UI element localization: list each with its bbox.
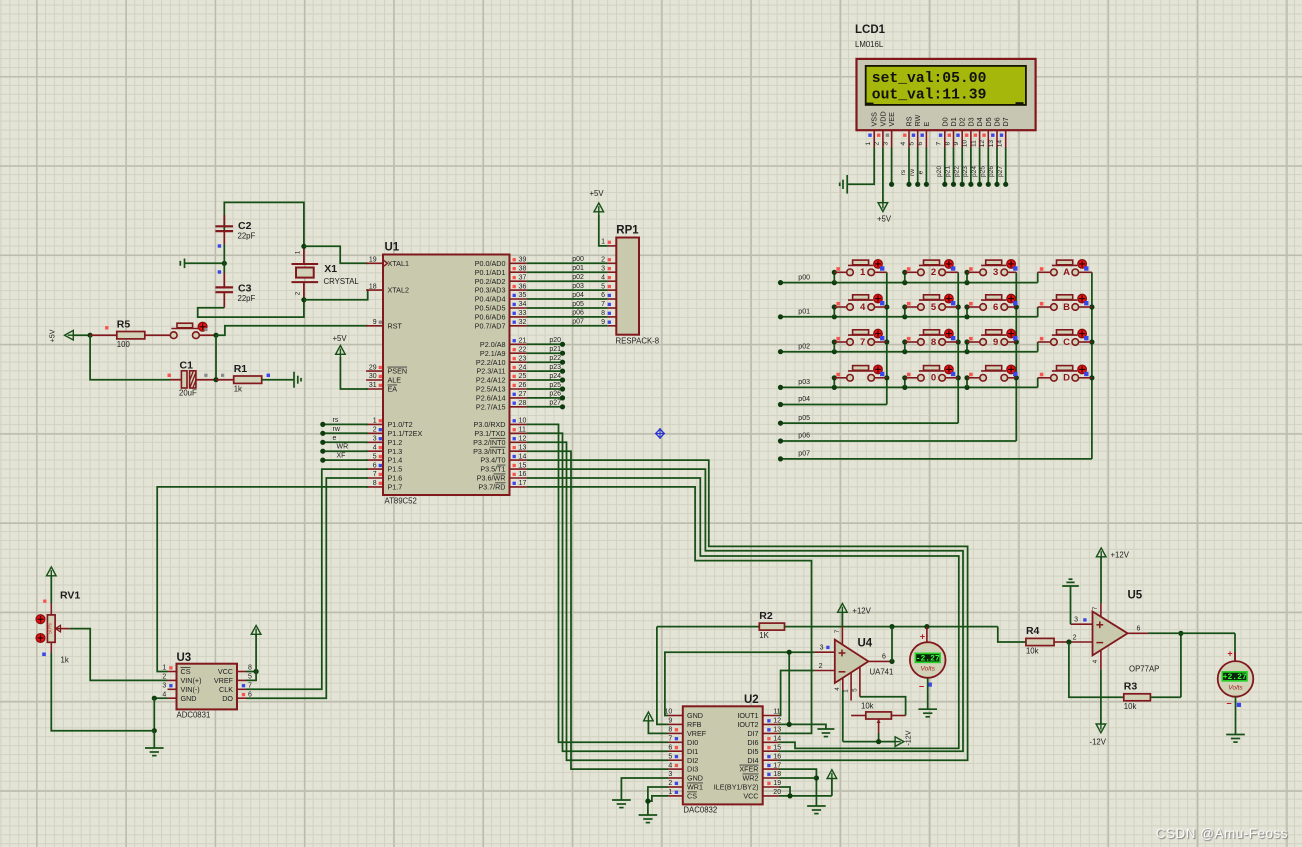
svg-text:15: 15	[519, 462, 527, 469]
power +12V (U4)	[838, 604, 872, 627]
svg-text:RST: RST	[388, 321, 403, 330]
power +5V (left rail)	[48, 329, 91, 342]
svg-text:2: 2	[819, 663, 823, 670]
wire net e (LCD)	[918, 148, 929, 187]
svg-text:6: 6	[373, 462, 377, 469]
svg-text:CS: CS	[181, 667, 191, 676]
svg-text:D: D	[1063, 373, 1070, 384]
svg-text:13: 13	[519, 444, 527, 451]
svg-text:11: 11	[519, 427, 526, 434]
wire RV1 wiper to ADC VIN+	[70, 629, 168, 681]
origin marker	[655, 428, 665, 439]
svg-text:36: 36	[519, 283, 527, 290]
svg-text:D6: D6	[993, 117, 1002, 126]
svg-text:28: 28	[519, 400, 527, 407]
ground (ADC)	[145, 748, 164, 756]
svg-text:p04: p04	[572, 292, 584, 299]
wire net p01 (keypad row)	[778, 304, 1038, 319]
svg-text:D5: D5	[984, 117, 993, 126]
svg-text:21: 21	[519, 338, 527, 345]
svg-text:X1: X1	[324, 263, 337, 275]
svg-text:7: 7	[834, 629, 841, 633]
svg-text:8: 8	[668, 727, 672, 734]
svg-text:38: 38	[519, 265, 527, 272]
svg-text:VCC: VCC	[743, 792, 758, 801]
svg-text:OP77AP: OP77AP	[1129, 665, 1159, 674]
wire C3 bottom to X1 pin2	[198, 300, 304, 317]
svg-text:R2: R2	[759, 610, 773, 622]
push-button keypad 1	[834, 260, 887, 279]
svg-text:32: 32	[519, 319, 527, 326]
svg-text:2: 2	[874, 141, 881, 145]
node C1-R1	[213, 377, 218, 382]
node cap junction	[222, 261, 227, 266]
svg-text:6: 6	[1137, 625, 1141, 632]
wire net p24 (LCD D4)	[971, 148, 982, 187]
ground (IOUT2)	[817, 729, 834, 737]
push-button keypad 2	[905, 260, 958, 279]
voltmeter (U5 output) +2.27V	[1218, 649, 1254, 735]
svg-text:0: 0	[931, 373, 936, 384]
svg-text:out_val:11.39: out_val:11.39	[872, 88, 987, 104]
svg-text:100: 100	[117, 340, 131, 349]
wire net p04 (keypad column)	[778, 272, 890, 407]
svg-text:ALE: ALE	[388, 376, 402, 385]
svg-text:rs: rs	[333, 417, 339, 424]
svg-text:+5V: +5V	[877, 215, 892, 224]
svg-text:rs: rs	[900, 169, 907, 175]
potentiometer RV1 1k	[36, 590, 80, 665]
ground (crystal caps)	[180, 259, 224, 269]
potentiometer 10k (U4 offset)	[851, 697, 906, 733]
node U4 output	[889, 627, 894, 664]
svg-text:XTAL1: XTAL1	[388, 259, 409, 268]
svg-text:P0.3/AD3: P0.3/AD3	[475, 286, 506, 295]
svg-text:VIN(-): VIN(-)	[181, 685, 200, 694]
svg-text:p21: p21	[549, 346, 561, 353]
push-button keypad C	[1038, 329, 1092, 347]
svg-text:P2.0/A8: P2.0/A8	[480, 340, 506, 349]
wire DAC IOUT2 to ground and U4 +input	[779, 650, 826, 729]
svg-text:D3: D3	[966, 117, 975, 126]
wire P3.7 to DAC DI7	[527, 487, 812, 734]
svg-text:9: 9	[993, 337, 998, 348]
svg-text:P2.5/A13: P2.5/A13	[476, 385, 506, 394]
svg-text:10k: 10k	[1124, 702, 1137, 711]
wire net p00 (keypad row)	[778, 270, 1038, 286]
svg-text:DI4: DI4	[747, 756, 758, 765]
svg-text:VCC: VCC	[218, 667, 233, 676]
ground (voltmeter 1)	[918, 709, 937, 717]
svg-text:22pF: 22pF	[238, 232, 256, 241]
DAC U2 DAC0832	[665, 694, 782, 815]
svg-text:14: 14	[519, 453, 527, 460]
capacitor C1 (electrolytic 20uF)	[168, 360, 225, 398]
wire net p20 (LCD D0)	[936, 148, 947, 187]
svg-text:p05: p05	[572, 301, 584, 308]
wire P1.5 to ADC CLK	[246, 469, 368, 689]
microcontroller U1 AT89C52	[366, 242, 526, 506]
svg-text:p04: p04	[798, 396, 810, 403]
svg-text:P3.3/INT1: P3.3/INT1	[473, 447, 505, 456]
svg-text:P1.4: P1.4	[388, 456, 403, 465]
svg-text:13: 13	[988, 140, 995, 148]
svg-text:DI5: DI5	[747, 747, 758, 756]
svg-text:10: 10	[519, 418, 527, 425]
wire X1 pin2 to U1 XTAL2	[304, 290, 368, 300]
svg-text:U2: U2	[744, 694, 759, 706]
svg-text:9: 9	[953, 141, 960, 145]
svg-text:WR: WR	[337, 444, 349, 451]
svg-text:p00: p00	[798, 274, 810, 281]
watermark CSDN	[1156, 826, 1288, 841]
svg-text:VREF: VREF	[214, 676, 234, 685]
wire C2 top to X1 pin1	[224, 202, 304, 246]
svg-text:5: 5	[851, 688, 858, 692]
svg-text:P1.2: P1.2	[388, 438, 403, 447]
svg-text:WR2: WR2	[743, 774, 759, 783]
svg-text:23: 23	[519, 355, 527, 362]
svg-text:4: 4	[1092, 659, 1099, 663]
svg-text:1K: 1K	[759, 631, 769, 640]
wire net p26 (LCD D6)	[988, 148, 999, 187]
node R4-U5	[1066, 639, 1071, 644]
wire net p03 (keypad row)	[778, 375, 1038, 390]
wire RV1 bottom to ground	[51, 653, 154, 731]
push-button keypad D	[1038, 365, 1092, 384]
svg-text:2: 2	[294, 291, 301, 295]
svg-text:1: 1	[860, 267, 866, 278]
svg-text:P2.6/A14: P2.6/A14	[476, 394, 506, 403]
wire net p21 (LCD D1)	[945, 148, 956, 187]
op-amp U5 OP77AP	[1069, 590, 1159, 674]
svg-text:PSEN: PSEN	[388, 367, 408, 376]
svg-text:-12V: -12V	[904, 730, 913, 745]
svg-text:19: 19	[369, 257, 377, 264]
svg-text:P0.6/AD6: P0.6/AD6	[475, 313, 506, 322]
svg-text:p25: p25	[980, 166, 987, 177]
svg-text:+5V: +5V	[48, 329, 57, 342]
svg-text:−: −	[1226, 699, 1231, 709]
svg-text:XF: XF	[337, 453, 346, 460]
svg-text:E: E	[922, 122, 931, 127]
node R5 left	[88, 333, 93, 338]
wire ADC VCC/VREF to +5V	[246, 635, 259, 681]
svg-text:C2: C2	[238, 220, 252, 232]
push-button keypad 8	[905, 329, 958, 347]
svg-text:7: 7	[860, 337, 865, 348]
svg-text:D4: D4	[975, 117, 984, 126]
svg-text:P1.7: P1.7	[388, 483, 403, 492]
svg-text:D7: D7	[1001, 117, 1010, 126]
push-button reset	[170, 322, 216, 338]
svg-text:GND: GND	[687, 774, 703, 783]
svg-text:p03: p03	[572, 283, 584, 290]
svg-text:P3.5/T1: P3.5/T1	[480, 465, 505, 474]
svg-text:D1: D1	[949, 117, 958, 126]
svg-text:VDD: VDD	[878, 111, 887, 126]
svg-text:10k: 10k	[861, 702, 874, 711]
svg-text:C1: C1	[180, 360, 194, 372]
ground (XFER/WR2)	[807, 806, 826, 814]
svg-text:p20: p20	[549, 337, 561, 344]
wire DAC GND(3) to ground	[621, 778, 668, 800]
ground (DAC CS/WR1)	[639, 815, 658, 823]
wire P3.0 to DAC DI0	[527, 424, 668, 742]
wire R3 to U5 output	[1178, 631, 1183, 698]
power +5V (EA)	[333, 334, 369, 389]
svg-text:1: 1	[294, 250, 301, 254]
svg-text:5: 5	[931, 302, 937, 313]
svg-text:+5V: +5V	[333, 334, 348, 343]
svg-text:ADC0831: ADC0831	[177, 711, 211, 720]
svg-text:5: 5	[668, 753, 672, 760]
resistor R2	[657, 610, 892, 640]
svg-text:p24: p24	[971, 166, 978, 177]
svg-text:AT89C52: AT89C52	[385, 497, 417, 506]
svg-text:p20: p20	[936, 166, 943, 177]
svg-text:P1.1/T2EX: P1.1/T2EX	[388, 429, 423, 438]
wire reset junction down to C1/R1 row	[215, 335, 217, 380]
svg-text:p23: p23	[549, 364, 561, 371]
ground (voltmeter 2)	[1226, 735, 1245, 743]
svg-text:P2.1/A9: P2.1/A9	[480, 349, 506, 358]
svg-text:R5: R5	[117, 318, 131, 330]
svg-text:A: A	[1063, 267, 1070, 278]
svg-text:+12V: +12V	[1111, 550, 1130, 559]
node X1 pin1	[301, 244, 306, 249]
svg-text:p01: p01	[798, 309, 810, 316]
resistor R4	[1026, 625, 1069, 655]
svg-text:P0.1/AD1: P0.1/AD1	[475, 268, 506, 277]
svg-text:P2.4/A12: P2.4/A12	[476, 376, 506, 385]
svg-text:DI7: DI7	[747, 729, 758, 738]
svg-text:37: 37	[519, 274, 527, 281]
svg-text:C3: C3	[238, 283, 252, 295]
wire P3.6 to DAC DI6	[527, 478, 959, 748]
svg-text:GND: GND	[687, 711, 703, 720]
svg-text:D2: D2	[958, 117, 967, 126]
svg-text:+12V: +12V	[852, 607, 871, 616]
svg-text:P3.2/INT0: P3.2/INT0	[473, 438, 505, 447]
svg-text:p05: p05	[798, 415, 810, 422]
svg-text:25: 25	[519, 373, 527, 380]
svg-text:4: 4	[373, 444, 377, 451]
svg-text:10: 10	[962, 140, 969, 148]
svg-text:1: 1	[865, 141, 872, 145]
node reset junction	[213, 333, 218, 338]
svg-text:P3.7/RD: P3.7/RD	[478, 483, 505, 492]
push-button keypad A	[1038, 260, 1092, 279]
svg-text:P3.6/WR: P3.6/WR	[477, 474, 506, 483]
wire DAC ILE/VCC to +5V arrow	[779, 779, 832, 799]
svg-text:p01: p01	[572, 265, 584, 272]
svg-text:R3: R3	[1124, 681, 1138, 693]
svg-text:P1.5: P1.5	[388, 465, 403, 474]
svg-text:33: 33	[519, 310, 527, 317]
svg-text:3: 3	[668, 771, 672, 778]
svg-text:+2.27: +2.27	[1223, 673, 1247, 682]
svg-text:GND: GND	[181, 694, 197, 703]
svg-text:31: 31	[369, 382, 377, 389]
wire P3.2 to DAC DI2	[527, 442, 668, 760]
svg-text:RP1: RP1	[616, 225, 639, 237]
wire -12V rail (U4)	[843, 690, 895, 744]
svg-text:2: 2	[373, 427, 377, 434]
crystal X1	[292, 246, 360, 299]
wire net p00-p07 (U1 P0 to RP1)	[527, 256, 608, 326]
wire P1.6 to ADC DO	[246, 478, 368, 698]
svg-text:p26: p26	[988, 166, 995, 177]
resistor pack RP1 RESPACK-8	[601, 225, 659, 346]
wire LCD VSS to ground	[848, 148, 874, 185]
svg-text:22pF: 22pF	[238, 294, 256, 303]
svg-text:20uF: 20uF	[179, 389, 197, 398]
svg-text:p25: p25	[549, 382, 561, 389]
wire X1 pin1 to U1 XTAL1	[304, 246, 368, 263]
ground (LCD VSS)	[840, 175, 848, 194]
wire net p05 (keypad column)	[778, 272, 961, 425]
svg-text:1k: 1k	[61, 656, 69, 665]
svg-text:rw: rw	[333, 426, 341, 433]
svg-text:p07: p07	[798, 451, 810, 458]
wire net p20-p27 (U1 P2 stubs)	[527, 337, 566, 409]
push-button keypad (r4c3)	[967, 365, 1018, 381]
svg-text:39: 39	[519, 257, 527, 264]
push-button keypad 6	[967, 294, 1018, 312]
svg-text:2: 2	[1073, 635, 1077, 642]
svg-text:+: +	[920, 631, 925, 641]
wire net p02 (keypad row)	[778, 339, 1038, 354]
svg-text:1: 1	[668, 789, 672, 796]
svg-text:3: 3	[993, 267, 998, 278]
svg-text:U1: U1	[385, 242, 400, 254]
svg-text:DI3: DI3	[687, 765, 698, 774]
svg-text:DO: DO	[222, 694, 233, 703]
svg-text:IOUT1: IOUT1	[737, 711, 758, 720]
wire U4 output rail	[889, 624, 997, 629]
svg-text:p00: p00	[572, 256, 584, 263]
power +5V (LCD VDD)	[877, 148, 892, 224]
resistor R1	[216, 363, 294, 394]
wire P3.3 to DAC DI3	[527, 451, 668, 769]
wire net p23 (LCD D3)	[962, 148, 973, 187]
svg-text:8: 8	[373, 480, 377, 487]
svg-text:14: 14	[997, 140, 1004, 148]
svg-text:+: +	[1227, 649, 1232, 659]
svg-text:p03: p03	[798, 379, 810, 386]
svg-text:XFER: XFER	[739, 765, 758, 774]
svg-text:12: 12	[519, 436, 527, 443]
svg-text:6: 6	[917, 141, 924, 145]
wire net rw (LCD)	[909, 148, 920, 187]
svg-text:7: 7	[1092, 606, 1099, 610]
svg-text:p22: p22	[953, 166, 960, 177]
node ADC ground junction	[152, 728, 157, 748]
wire DAC XFER/WR2 to ground	[779, 769, 819, 806]
svg-text:DI2: DI2	[687, 756, 698, 765]
svg-text:CRYSTAL: CRYSTAL	[324, 277, 360, 286]
svg-text:P2.2/A10: P2.2/A10	[476, 358, 506, 367]
svg-text:e: e	[333, 435, 337, 442]
svg-text:IOUT2: IOUT2	[737, 720, 758, 729]
svg-text:5: 5	[373, 453, 377, 460]
svg-text:LM016L: LM016L	[855, 40, 884, 49]
svg-text:Volts: Volts	[1228, 685, 1243, 692]
wire net p27 (LCD D7)	[997, 148, 1008, 187]
ground (R1 right)	[294, 372, 301, 388]
ground (U5 +input)	[1062, 579, 1079, 624]
svg-text:U4: U4	[858, 638, 873, 650]
svg-text:p21: p21	[945, 166, 952, 177]
svg-text:18: 18	[369, 283, 377, 290]
svg-text:22: 22	[519, 346, 527, 353]
svg-text:6: 6	[993, 302, 998, 313]
svg-text:CLK: CLK	[219, 685, 233, 694]
svg-text:4: 4	[668, 762, 672, 769]
svg-text:1k: 1k	[234, 384, 242, 393]
wire +5V down to C1 row	[90, 335, 170, 380]
svg-text:DI0: DI0	[687, 738, 698, 747]
wire U5 output to voltmeter 2	[1148, 633, 1235, 661]
svg-text:24: 24	[519, 364, 527, 371]
svg-text:p23: p23	[962, 166, 969, 177]
svg-text:p02: p02	[798, 343, 810, 350]
svg-text:CS: CS	[687, 792, 697, 801]
svg-text:P0.0/AD0: P0.0/AD0	[475, 259, 506, 268]
push-button keypad 4	[834, 294, 887, 312]
svg-text:P0.2/AD2: P0.2/AD2	[475, 277, 506, 286]
power -12V (U5)	[1090, 669, 1107, 746]
push-button keypad B	[1038, 294, 1092, 312]
svg-text:6: 6	[882, 653, 886, 660]
svg-text:P3.1/TXD: P3.1/TXD	[474, 429, 505, 438]
svg-text:RS: RS	[905, 116, 914, 126]
wire net p07 (keypad column)	[778, 272, 1095, 461]
wire net p06 (keypad column)	[778, 272, 1019, 443]
svg-text:2: 2	[668, 780, 672, 787]
svg-text:P2.3/A11: P2.3/A11	[476, 367, 505, 376]
svg-text:3: 3	[162, 683, 166, 690]
svg-text:4: 4	[900, 141, 907, 145]
ground (DAC GND3)	[612, 800, 631, 808]
resistor R5	[90, 318, 170, 349]
svg-text:P3.0/RXD: P3.0/RXD	[474, 420, 506, 429]
wire net p22 (LCD D2)	[953, 148, 964, 187]
node X1 pin2	[301, 297, 306, 302]
svg-text:LCD1: LCD1	[855, 24, 886, 36]
svg-text:34: 34	[519, 301, 527, 308]
svg-text:10k: 10k	[1026, 647, 1039, 656]
svg-text:P1.6: P1.6	[388, 474, 403, 483]
svg-text:6: 6	[668, 744, 672, 751]
ADC U3 ADC0831	[162, 652, 252, 720]
svg-text:P0.4/AD4: P0.4/AD4	[475, 295, 506, 304]
svg-text:p06: p06	[798, 433, 810, 440]
svg-text:C: C	[1063, 337, 1070, 348]
push-button keypad 7	[834, 329, 887, 347]
svg-text:e: e	[918, 170, 925, 174]
svg-text:WR1: WR1	[687, 783, 703, 792]
svg-text:DI6: DI6	[747, 738, 758, 747]
svg-text:−: −	[919, 681, 924, 691]
voltmeter (U4 output) -2.27V	[910, 627, 946, 710]
wire P3.5 to DAC DI5	[527, 469, 963, 751]
svg-text:p27: p27	[549, 400, 561, 407]
svg-text:16: 16	[519, 471, 527, 478]
power arrow (DAC VCC)	[827, 770, 837, 781]
svg-text:Volts: Volts	[920, 666, 935, 673]
